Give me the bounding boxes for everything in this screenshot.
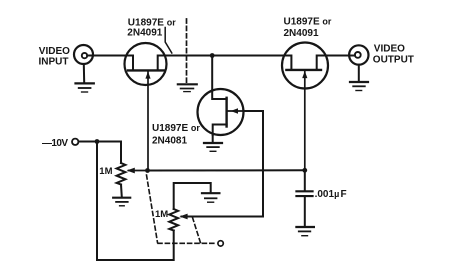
svg-text:—10V: —10V (42, 138, 68, 149)
terminal -10V open circle (72, 139, 78, 145)
svg-text:1M: 1M (155, 209, 168, 220)
transistor Q3 channel bar (286, 69, 321, 71)
terminal gang control open circle (218, 241, 223, 246)
svg-text:1M: 1M (99, 166, 112, 177)
capacitor C1 top plate (296, 190, 312, 192)
transistor Q1 JFET body circle (125, 43, 167, 85)
svg-text:OUTPUT: OUTPUT (373, 54, 414, 65)
dashed gang linkage horizontal run (158, 242, 216, 244)
transistor Q1 gate lead (147, 72, 149, 171)
svg-text:U1897E or: U1897E or (284, 16, 332, 27)
wire junction down to Q2 drain (211, 56, 213, 91)
transistor Q3 JFET body circle (282, 43, 328, 89)
transistor Q1 drain lead (126, 56, 134, 70)
svg-text:INPUT: INPUT (39, 56, 69, 67)
label R2 1M (155, 209, 168, 220)
leader line from Q1 label to Q1 body (165, 28, 172, 54)
label R1 1M (99, 166, 112, 177)
arrow R1 wiper pointing into pot (127, 168, 135, 174)
dashed gang linkage from R2 wiper down (193, 218, 201, 243)
node junction Q3 gate / capacitor (302, 168, 307, 173)
potentiometer R1 1M zigzag (117, 163, 126, 185)
dashed gang linkage from R1 wiper down (147, 175, 158, 243)
svg-text:VIDEO: VIDEO (39, 46, 70, 57)
node junction -10V rail (95, 139, 100, 144)
svg-text:2N4091: 2N4091 (284, 28, 319, 39)
ground R2 top branch (202, 193, 219, 202)
transistor Q1 gate arrow (145, 72, 150, 79)
wire R1 wiper to junction (129, 170, 148, 172)
transistor Q2 gate arrow (231, 108, 238, 113)
connector J1 video input jack outer (74, 45, 93, 64)
transistor Q2 source lead (213, 125, 227, 135)
svg-text:VIDEO: VIDEO (374, 44, 405, 55)
transistor Q3 source lead (317, 56, 327, 69)
ground input jack (76, 83, 94, 92)
ground C1 (296, 227, 314, 236)
wire -10V to pot R1 top (79, 142, 122, 164)
node junction video bus to Q2 drain (210, 53, 215, 58)
potentiometer R2 1M zigzag (169, 209, 178, 231)
svg-text:.001µF: .001µF (315, 189, 347, 200)
ground output jack (350, 82, 368, 91)
wire Q2 gate over to pot R2 wiper (crossover) (182, 111, 264, 217)
connector J2 video output jack outer (349, 45, 368, 64)
connector J2 center pin (355, 52, 361, 58)
ground R1 (113, 198, 130, 206)
connector J1 center pin (82, 53, 87, 58)
wire R2 top to ground branch (174, 183, 211, 209)
wire J1 shell to ground (83, 64, 85, 83)
capacitor C1 bottom plate (296, 195, 312, 197)
wire gate bias rail to Q3 gate junction (148, 169, 305, 171)
transistor Q2 drain lead (212, 91, 226, 100)
transistor Q3 drain lead (284, 56, 292, 69)
wire J2 shell to ground (358, 65, 360, 82)
ground dashed shield (178, 84, 197, 91)
svg-text:U1897E or: U1897E or (152, 123, 200, 134)
wire input jack to Q1 drain (87, 55, 125, 57)
capacitor C1 lead from junction (304, 170, 306, 190)
transistor Q1 source lead (158, 56, 165, 70)
wire Q2 source to ground (212, 135, 214, 143)
label -10V supply (42, 138, 68, 149)
node VIDEO INPUT label (39, 46, 71, 68)
transistor Q2 channel bar (225, 98, 227, 127)
capacitor C1 lead to ground (304, 197, 306, 227)
svg-text:2N4091: 2N4091 (127, 28, 162, 39)
wire Q1 source to Q3 drain (video bus) (165, 55, 284, 57)
node VIDEO OUTPUT label (373, 44, 414, 66)
wire junction down left rail to bottom (97, 142, 174, 261)
label Q3 value U1897E or 2N4091 (284, 16, 332, 39)
node junction R1 wiper / Q1 gate (145, 168, 150, 173)
transistor Q3 gate lead (304, 72, 306, 171)
wire R1 bottom to ground (120, 185, 123, 198)
svg-text:2N4081: 2N4081 (152, 136, 187, 147)
transistor Q1 channel bar (128, 69, 164, 71)
transistor Q2 gate lead with arrow (227, 110, 243, 112)
transistor Q2 JFET body circle (198, 89, 244, 135)
dashed shield line near Q1 (186, 19, 188, 83)
label Q1 value U1897E or 2N4091 (127, 17, 176, 38)
wire Q3 source to output jack (327, 55, 356, 57)
label Q2 value U1897E or 2N4081 (152, 123, 200, 146)
transistor Q3 gate arrow (302, 71, 307, 78)
arrow R2 wiper pointing into pot (180, 214, 188, 220)
label C1 value .001uF (315, 189, 347, 200)
ground Q2 source (204, 143, 222, 151)
